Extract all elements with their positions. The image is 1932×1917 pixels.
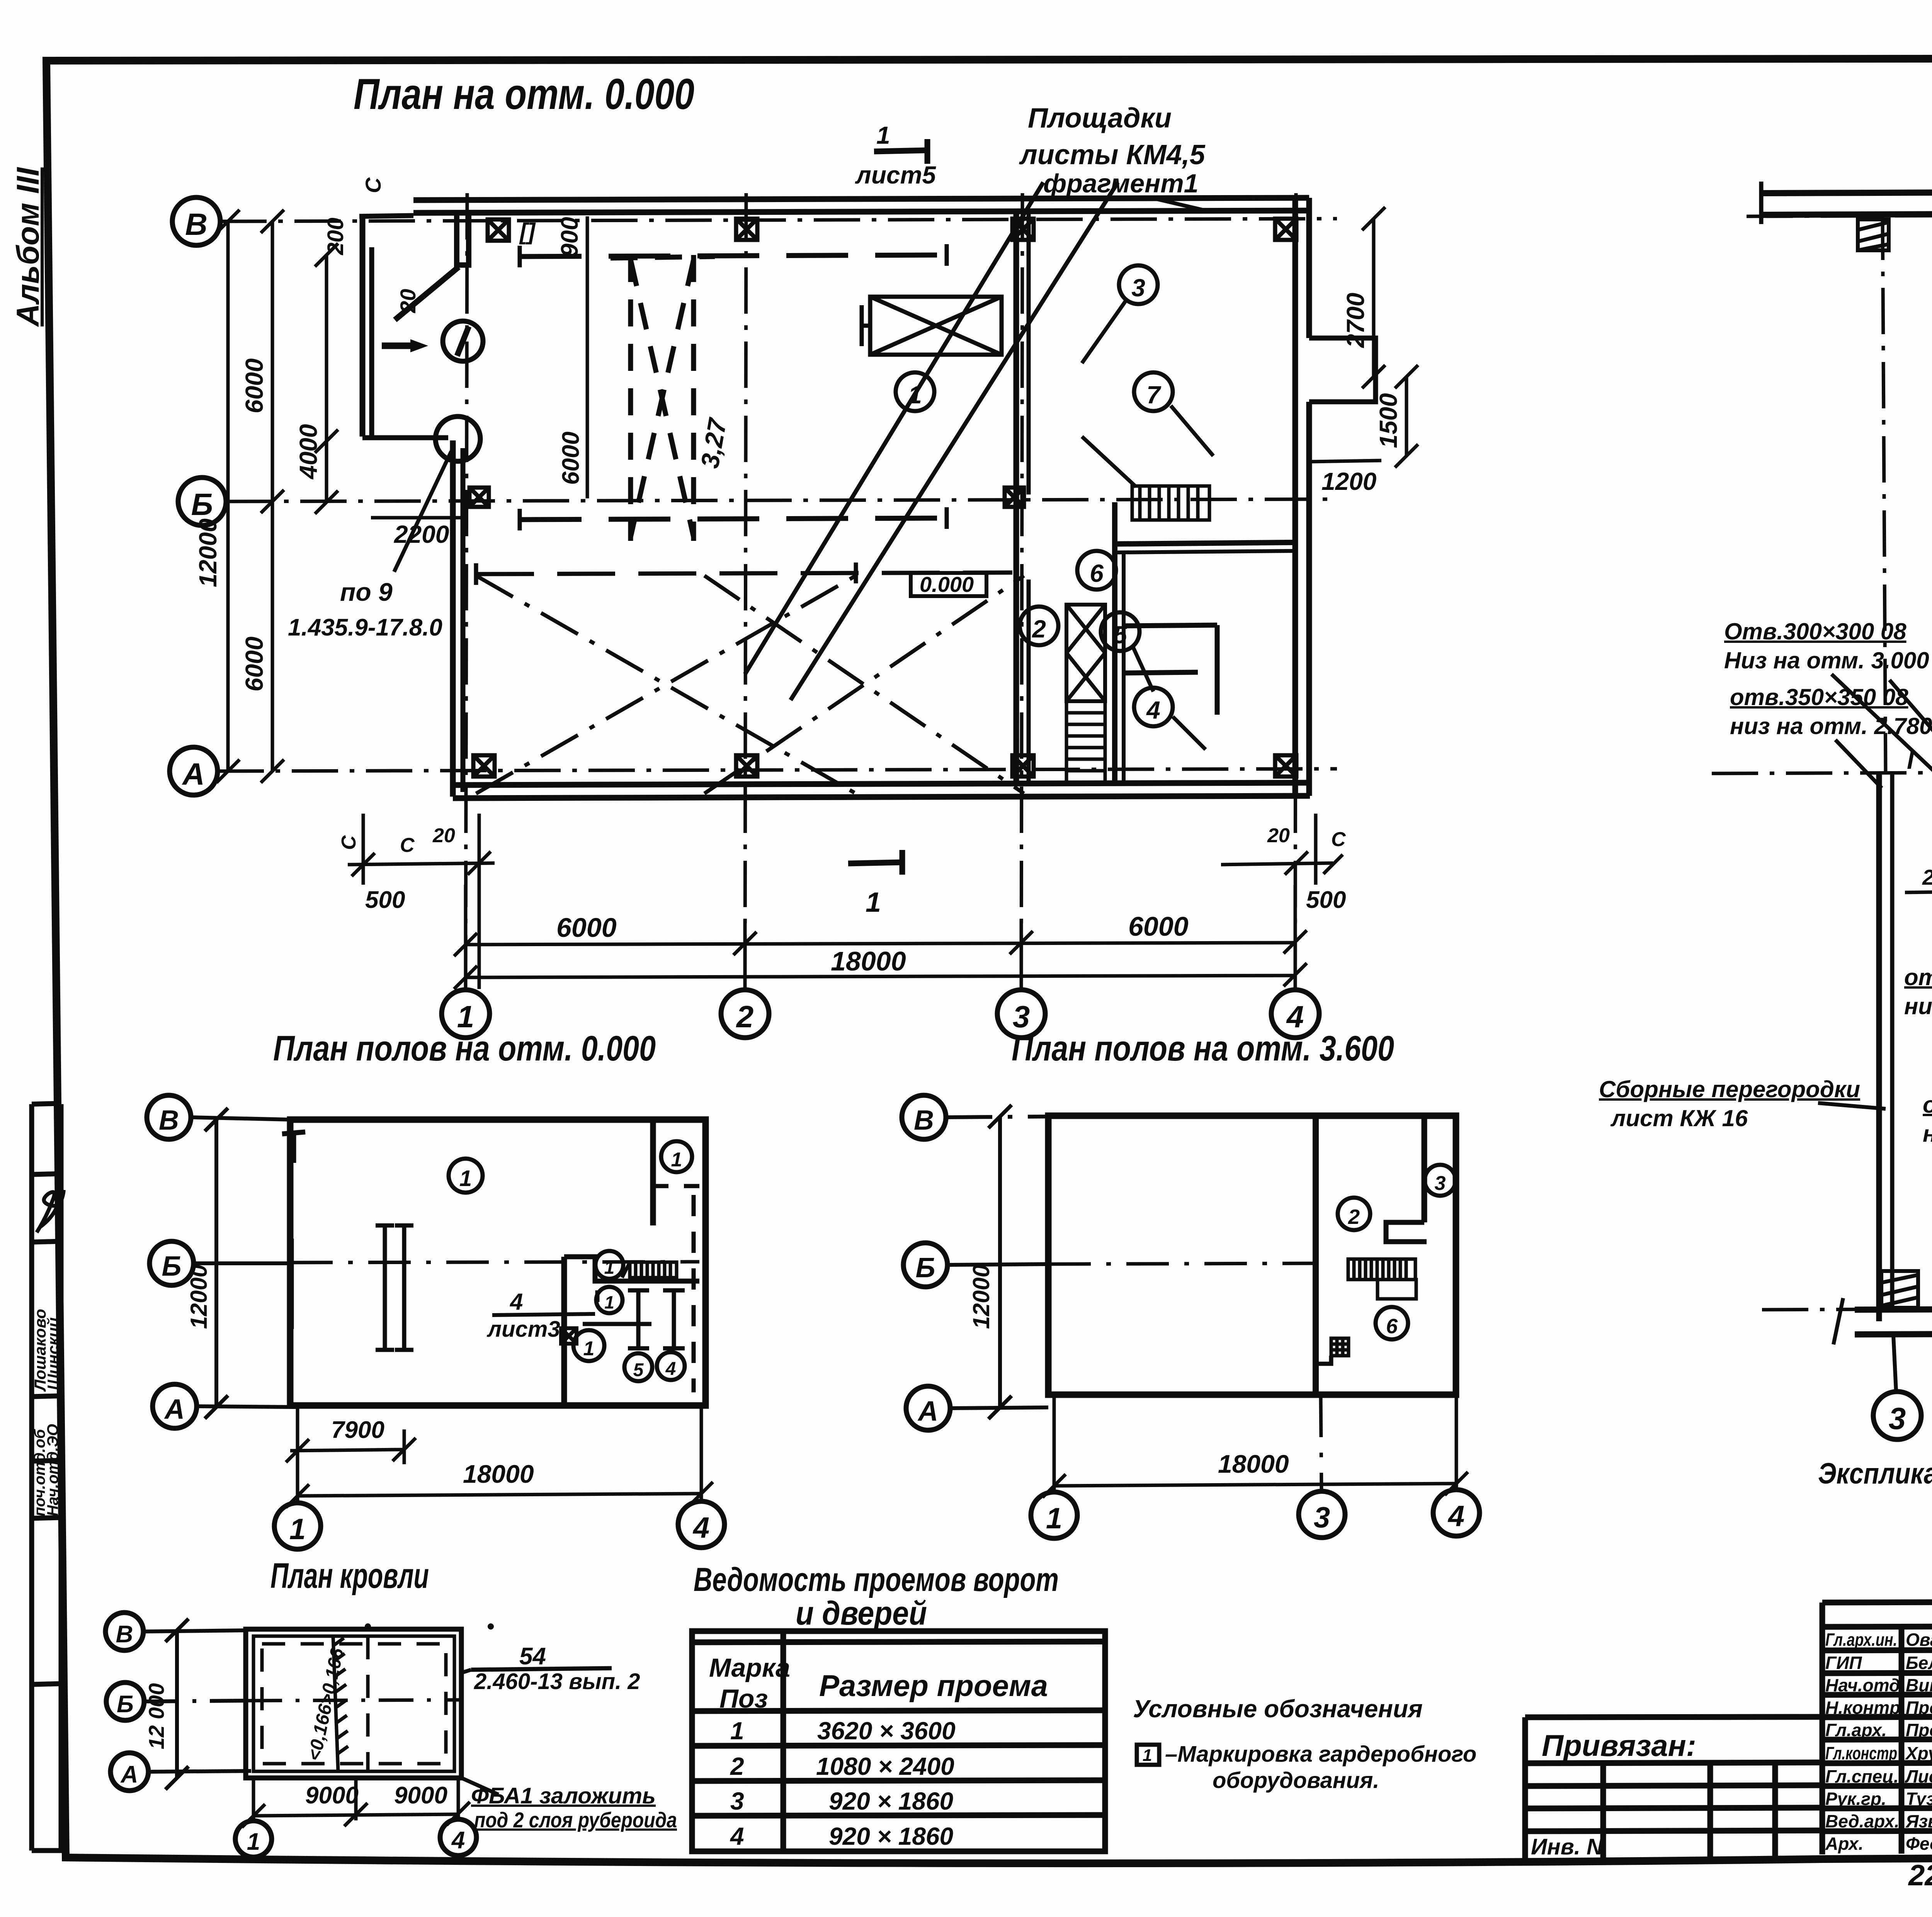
- svg-text:Отв.300×300 08: Отв.300×300 08: [1724, 619, 1906, 644]
- column Б-3: [1005, 488, 1024, 507]
- svg-text:900: 900: [556, 217, 583, 257]
- svg-text:3: 3: [1889, 1401, 1906, 1436]
- Б axis dash through: [1048, 1263, 1316, 1264]
- svg-text:План кровли: План кровли: [270, 1556, 429, 1596]
- right wall double line: [1293, 198, 1298, 796]
- svg-text:500: 500: [1306, 887, 1346, 913]
- svg-text:20: 20: [396, 289, 420, 313]
- axis line В fragment: [1747, 214, 1932, 216]
- svg-text:9000: 9000: [394, 1782, 447, 1809]
- top wall fragment: [1761, 191, 1932, 193]
- 0.000 level box: [911, 573, 986, 596]
- axis circle 1 roof: [235, 1821, 272, 1857]
- svg-text:В: В: [116, 1621, 133, 1648]
- axis circle В: [147, 1095, 191, 1139]
- svg-text:9000: 9000: [305, 1782, 359, 1809]
- svg-text:4: 4: [730, 1822, 744, 1850]
- room circle 7: [1134, 372, 1173, 411]
- svg-text:Гл.спец.: Гл.спец.: [1825, 1766, 1899, 1786]
- bottom dim row 6000-6000: [454, 885, 1307, 989]
- small hatch box bottom: [1331, 1338, 1349, 1356]
- album vertical text: [10, 167, 46, 327]
- right rooms: vertical wall: [561, 1257, 567, 1405]
- svg-text:4: 4: [510, 1289, 523, 1315]
- svg-text:С: С: [338, 835, 360, 850]
- svg-text:и дверей: и дверей: [796, 1595, 927, 1632]
- svg-text:Низ на отм. 3.000: Низ на отм. 3.000: [1724, 647, 1929, 673]
- svg-text:Б: Б: [117, 1691, 134, 1718]
- svg-text:3: 3: [1131, 274, 1145, 302]
- svg-text:Инв. N: Инв. N: [1531, 1834, 1603, 1859]
- axis circle А: [111, 1753, 148, 1791]
- svg-text:низ на отм. 3.000: низ на отм. 3.000: [1904, 993, 1932, 1019]
- svg-text:В: В: [159, 1105, 179, 1136]
- partition horizontal y1740: [1124, 672, 1198, 673]
- svg-text:[]: []: [519, 219, 536, 245]
- svg-text:Б: Б: [191, 487, 213, 522]
- section mark 1 top / лист5: [874, 139, 927, 164]
- marking box with X: [561, 1328, 577, 1344]
- axis circle 1 bottom: [274, 1503, 321, 1549]
- axis line 3 fragment: [1883, 214, 1886, 773]
- svg-text:3: 3: [1314, 1501, 1330, 1534]
- svg-text:3: 3: [1435, 1172, 1446, 1195]
- svg-text:200: 200: [323, 218, 348, 255]
- Б dash through roof: [247, 1700, 461, 1701]
- wall return at node: [362, 435, 448, 440]
- partition vertical x2885: [1112, 502, 1117, 784]
- svg-text:54: 54: [519, 1643, 546, 1670]
- top tick: [291, 1132, 296, 1163]
- plan at 0.000 (top-left): [170, 70, 1418, 1038]
- svg-text:А: А: [164, 1394, 185, 1425]
- svg-text:4: 4: [1146, 696, 1160, 724]
- svg-text:1: 1: [908, 381, 922, 409]
- svg-text:2: 2: [1348, 1205, 1360, 1229]
- svg-text:18000: 18000: [831, 946, 906, 976]
- column А-4: [1275, 755, 1296, 777]
- svg-text:лист3: лист3: [486, 1317, 560, 1342]
- svg-text:12000: 12000: [968, 1264, 994, 1329]
- left wall lower fragment: [1876, 773, 1882, 1321]
- svg-text:ФБА1 заложить: ФБА1 заложить: [471, 1783, 656, 1808]
- circle 1 at stair: [595, 1251, 623, 1279]
- axis circle Б: [178, 478, 226, 525]
- ladder lower: [1066, 701, 1105, 784]
- column А-2: [736, 755, 757, 777]
- wall stub pilaster top-left: [457, 214, 469, 265]
- svg-text:1: 1: [730, 1717, 744, 1745]
- svg-text:Альбом III: Альбом III: [10, 167, 46, 327]
- svg-text:6000: 6000: [240, 359, 268, 413]
- svg-text:Гл.арх.ин.: Гл.арх.ин.: [1825, 1630, 1897, 1650]
- top wall left canopy extension: [359, 216, 413, 216]
- svg-text:Марка: Марка: [709, 1653, 790, 1682]
- axis circle Б: [106, 1682, 144, 1720]
- svg-text:Арх.: Арх.: [1825, 1834, 1864, 1854]
- svg-text:Привязан:: Привязан:: [1542, 1728, 1696, 1762]
- interior wall axis 3: [1014, 213, 1019, 784]
- name table outer: [1820, 1603, 1825, 1854]
- svg-text:С: С: [400, 834, 415, 857]
- column lines: [1899, 1627, 1905, 1854]
- column В-3: [1012, 219, 1034, 240]
- axis circle 4 bottom: [678, 1501, 724, 1548]
- stair treads upper right: [1132, 486, 1209, 520]
- svg-text:920 × 1860: 920 × 1860: [829, 1822, 953, 1850]
- dim 12 000: [175, 1630, 179, 1778]
- axis line 1: [466, 193, 467, 990]
- upper right room: [1422, 1116, 1427, 1222]
- partition vertical x3150: [1215, 625, 1220, 715]
- node detail circle: [435, 416, 480, 461]
- svg-text:Нач.отд.ЭО: Нач.отд.ЭО: [44, 1424, 61, 1516]
- svg-text:В: В: [185, 207, 207, 241]
- svg-text:–Маркировка гардеробного: –Маркировка гардеробного: [1165, 1742, 1476, 1767]
- dashed partition right: [692, 1195, 696, 1392]
- svg-text:4: 4: [665, 1359, 676, 1379]
- svg-text:6: 6: [1386, 1315, 1398, 1338]
- svg-text:6000: 6000: [558, 432, 584, 485]
- right side dims 2700/1500/1200: [1310, 207, 1418, 467]
- title block: [1525, 1600, 1932, 1905]
- shaft X-cross lower: [1066, 605, 1105, 701]
- axis circle А: [906, 1386, 950, 1430]
- right porch bump: [1309, 338, 1376, 402]
- leader to 3: [1082, 299, 1127, 363]
- svg-text:6000: 6000: [1128, 911, 1189, 942]
- column А-1: [473, 755, 495, 777]
- svg-text:4: 4: [692, 1511, 709, 1544]
- svg-text:4: 4: [451, 1827, 465, 1854]
- svg-text:3620 × 3600: 3620 × 3600: [817, 1717, 956, 1745]
- svg-text:1: 1: [604, 1258, 615, 1278]
- svg-text:6000: 6000: [556, 913, 617, 943]
- room partition horizontal y1408: [1115, 542, 1295, 544]
- svg-text:Площадки: Площадки: [1028, 103, 1172, 134]
- left wall upper segment: [360, 216, 366, 437]
- axis line Б: [226, 499, 1337, 501]
- svg-text:1500: 1500: [1374, 393, 1402, 448]
- svg-text:Ведомость проемов ворот: Ведомость проемов ворот: [694, 1561, 1059, 1598]
- svg-text:низ на отм. 2.780: низ на отм. 2.780: [1730, 713, 1932, 739]
- dim line x705 (6000/6000): [261, 210, 284, 783]
- column В-1: [488, 219, 509, 241]
- room 2 circle: [1338, 1198, 1370, 1230]
- axis stub lines: [191, 1117, 290, 1120]
- svg-text:0.000: 0.000: [920, 572, 974, 597]
- axis stubs: [946, 1117, 1048, 1117]
- svg-text:Гл.констр: Гл.констр: [1825, 1743, 1897, 1763]
- floors plan 0.000: [147, 1029, 724, 1549]
- axis circle 4: [1271, 990, 1319, 1038]
- axis line Б fragment: [1712, 771, 1932, 773]
- door schedule table: [692, 1561, 1476, 1851]
- gate open leaf diagonal: [395, 267, 459, 320]
- bottom wall fragment: [1855, 1307, 1932, 1310]
- axis line 4: [1295, 193, 1296, 990]
- svg-text:А: А: [182, 757, 205, 791]
- left wall lower segment: [450, 440, 456, 797]
- circles 5 and 4: [624, 1353, 652, 1381]
- svg-text:7900: 7900: [331, 1417, 384, 1443]
- svg-text:Белоус: Белоус: [1906, 1653, 1932, 1673]
- 900 vertical dim shaft: [586, 216, 589, 498]
- dim 12000: [998, 1117, 1002, 1407]
- svg-text:4: 4: [1447, 1500, 1464, 1533]
- stamp column boxes: [32, 1103, 66, 1851]
- svg-text:Хрупало: Хрупало: [1905, 1743, 1932, 1763]
- stair block: [1348, 1259, 1416, 1299]
- column А-3: [1012, 755, 1034, 777]
- svg-text:5: 5: [1113, 621, 1128, 649]
- svg-text:18000: 18000: [463, 1460, 534, 1488]
- svg-text:Тузанов: Тузанов: [1906, 1789, 1932, 1809]
- svg-text:отв. 300×300 08: отв. 300×300 08: [1904, 964, 1932, 990]
- svg-text:3: 3: [730, 1787, 744, 1815]
- crane dashed line lower: [520, 518, 947, 520]
- crane dashed line upper: [520, 255, 947, 257]
- room circle 2: [1020, 607, 1058, 645]
- room circle 5: [1101, 612, 1139, 651]
- left stamp column: [31, 1103, 66, 1851]
- bottom dim small 500 right: [1221, 814, 1343, 885]
- mid tick: [290, 1239, 294, 1329]
- svg-text:Прошляков: Прошляков: [1906, 1720, 1932, 1740]
- row lines name table: [1822, 1626, 1932, 1627]
- svg-text:Б: Б: [162, 1251, 182, 1282]
- axis line А fragment: [1762, 1307, 1932, 1310]
- svg-text:низ на отм. 2.750: низ на отм. 2.750: [1923, 1121, 1932, 1147]
- svg-text:под 2 слоя рубероида: под 2 слоя рубероида: [474, 1808, 677, 1832]
- left section box: [1522, 1717, 1528, 1859]
- svg-text:5: 5: [633, 1360, 644, 1380]
- axis circle Б: [903, 1243, 947, 1287]
- svg-text:С: С: [1331, 828, 1346, 851]
- room circle 3: [1119, 265, 1158, 304]
- axis circle 4 roof: [440, 1819, 476, 1856]
- svg-text:Лисичкин: Лисичкин: [1905, 1766, 1932, 1786]
- axis stubs: [143, 1630, 246, 1631]
- room circle 1: [896, 372, 934, 411]
- svg-text:920 × 1860: 920 × 1860: [829, 1787, 953, 1815]
- room circle 4: [1134, 688, 1173, 726]
- dashed middle vertical: [366, 1636, 370, 1771]
- building outline: [290, 1120, 706, 1405]
- fragment 1 (right): [1599, 79, 1932, 1490]
- axis circle 1: [1031, 1492, 1077, 1538]
- leader diagonal 1: [745, 182, 1043, 674]
- leaders left: [1832, 674, 1932, 846]
- svg-text:1: 1: [1046, 1502, 1062, 1535]
- svg-text:2200: 2200: [394, 520, 449, 548]
- svg-text:7: 7: [1146, 381, 1162, 409]
- svg-text:Язычьян: Язычьян: [1905, 1811, 1932, 1831]
- platform crossed rect top: [862, 297, 1002, 355]
- partition horizontal y1620: [1124, 625, 1217, 626]
- svg-text:Сборные перегородки: Сборные перегородки: [1599, 1076, 1860, 1102]
- svg-text:1: 1: [459, 1166, 472, 1191]
- svg-text:План полов на отм. 0.000: План полов на отм. 0.000: [273, 1029, 656, 1068]
- svg-text:Б: Б: [916, 1253, 935, 1283]
- dash-dot X brace left bay: [476, 576, 1024, 794]
- axis circle 3: [997, 990, 1045, 1038]
- table grid: [692, 1631, 1105, 1851]
- svg-text:лист КЖ 16: лист КЖ 16: [1610, 1105, 1748, 1131]
- svg-text:2: 2: [736, 999, 754, 1034]
- svg-text:оборудования.: оборудования.: [1213, 1768, 1379, 1793]
- room 1 big circle: [449, 1159, 483, 1193]
- svg-text:12000: 12000: [194, 518, 222, 587]
- stair treads: [622, 1262, 677, 1278]
- svg-text:22529-03 5: 22529-03 5: [1908, 1859, 1932, 1892]
- bottom wall double line: [453, 783, 1310, 785]
- svg-text:1: 1: [866, 887, 881, 918]
- svg-text:листы КМ4,5: листы КМ4,5: [1019, 139, 1206, 170]
- lower dashed tie line: [476, 573, 1012, 574]
- axis circle 1: [442, 990, 490, 1038]
- svg-text:1: 1: [1143, 1746, 1152, 1765]
- svg-text:Шинский: Шинский: [44, 1317, 62, 1390]
- floors plan 3.600: [902, 1029, 1480, 1538]
- svg-text:А: А: [917, 1396, 938, 1427]
- section mark 1 bottom: [848, 850, 902, 875]
- svg-text:В: В: [914, 1105, 934, 1136]
- svg-text:План полов на отм. 3.600: План полов на отм. 3.600: [1012, 1029, 1394, 1068]
- svg-text:Прошляков: Прошляков: [1906, 1698, 1932, 1718]
- svg-text:6000: 6000: [240, 637, 268, 692]
- svg-text:Рук.гр.: Рук.гр.: [1825, 1789, 1886, 1809]
- svg-text:Ованесян: Ованесян: [1906, 1630, 1932, 1650]
- svg-text:20: 20: [432, 824, 455, 847]
- gate leaf circle mark: [443, 321, 483, 361]
- room 1 circle upper right: [661, 1141, 692, 1172]
- ticks in rooms 5/4: [583, 1290, 685, 1348]
- svg-text:Н.контр.: Н.контр.: [1825, 1698, 1905, 1718]
- svg-text:2700: 2700: [1342, 293, 1369, 348]
- top dots: [365, 1623, 371, 1630]
- svg-text:Поз: Поз: [719, 1684, 768, 1713]
- svg-text:Винклер: Винклер: [1906, 1675, 1932, 1695]
- dashed shaft rect: [611, 255, 715, 541]
- svg-text:1: 1: [289, 1513, 306, 1546]
- left small grid: [1525, 1762, 1822, 1763]
- axis line 2: [745, 193, 746, 990]
- svg-text:250: 250: [1922, 865, 1932, 889]
- column В-2: [736, 219, 757, 240]
- entry arrow: [382, 343, 410, 349]
- axis line А: [218, 769, 1337, 771]
- svg-text:План на отм. 0.000: План на отм. 0.000: [354, 70, 694, 118]
- interior main wall: [1313, 1116, 1319, 1395]
- room 1 circle lower: [573, 1330, 604, 1361]
- dim 12000 left: [214, 1120, 218, 1407]
- svg-text:Условные обозначения: Условные обозначения: [1133, 1695, 1423, 1723]
- svg-text:1.435.9-17.8.0: 1.435.9-17.8.0: [288, 614, 442, 641]
- dashed inner: [262, 1644, 446, 1764]
- dim line x845 (4000/200): [315, 243, 338, 514]
- bottom dim small 500 left: [348, 814, 495, 989]
- svg-text:отв.350×350 08: отв.350×350 08: [1923, 1092, 1932, 1118]
- axis circle 4: [1433, 1490, 1480, 1536]
- svg-text:1200: 1200: [1321, 467, 1376, 495]
- roof plan: [105, 1556, 677, 1857]
- svg-text:Нач.отд.: Нач.отд.: [1825, 1675, 1905, 1695]
- svg-text:20: 20: [1267, 824, 1290, 847]
- step notch at Б: [564, 1257, 699, 1281]
- axis circle В: [105, 1613, 143, 1650]
- svg-text:Федулина: Федулина: [1906, 1834, 1932, 1854]
- svg-text:1: 1: [247, 1829, 260, 1855]
- column Б-1: [469, 488, 489, 507]
- axis circle Б: [150, 1241, 194, 1285]
- svg-text:отв.350×350 08: отв.350×350 08: [1730, 684, 1908, 710]
- column В-3 hatched: [1858, 219, 1889, 250]
- svg-text:1: 1: [583, 1337, 595, 1360]
- signature scribble in stamp: [37, 1190, 64, 1232]
- axis 3 dash to circle: [1321, 1395, 1321, 1490]
- Б axis dash through: [290, 1262, 699, 1263]
- room 5 circle: [1376, 1307, 1408, 1339]
- axis circle А: [153, 1384, 197, 1428]
- axis circle 3: [1299, 1491, 1345, 1538]
- axis line В: [220, 219, 1337, 221]
- column В-4: [1275, 219, 1296, 240]
- svg-text:1: 1: [604, 1292, 614, 1312]
- leader lines small rooms: [1082, 406, 1213, 749]
- svg-text:ГИП: ГИП: [1825, 1653, 1862, 1673]
- room 3 circle: [1425, 1165, 1456, 1196]
- axis line 3: [1021, 193, 1022, 990]
- column А-3 hatched: [1881, 1271, 1918, 1308]
- axis circle 2: [721, 990, 769, 1038]
- svg-text:Размер проема: Размер проема: [819, 1669, 1048, 1703]
- svg-text:6: 6: [1090, 559, 1104, 587]
- svg-text:12 000: 12 000: [144, 1683, 168, 1749]
- leader diagonals center: [1889, 680, 1932, 850]
- svg-text:4000: 4000: [294, 424, 322, 480]
- svg-text:2.460-13 вып. 2: 2.460-13 вып. 2: [474, 1669, 640, 1694]
- svg-text:1: 1: [671, 1149, 682, 1171]
- roof outline double: [246, 1629, 461, 1778]
- axis circle А: [170, 747, 218, 795]
- svg-text:Вед.арх.: Вед.арх.: [1825, 1811, 1899, 1831]
- axis circle 3 fragment: [1873, 1392, 1921, 1439]
- hatched valley strip: [333, 1636, 348, 1771]
- svg-text:500: 500: [365, 887, 405, 913]
- svg-text:Экспликацию полов и помещений: Экспликацию полов и помещений смотреть н…: [1818, 1457, 1932, 1490]
- svg-text:12000: 12000: [186, 1264, 212, 1329]
- monorail beams center: [376, 1225, 413, 1350]
- building outline: [1048, 1116, 1456, 1395]
- leader diagonal 2: [791, 182, 1118, 700]
- svg-text:А: А: [120, 1761, 138, 1788]
- svg-text:2: 2: [1032, 615, 1046, 643]
- svg-text:фрагмент1: фрагмент1: [1043, 169, 1199, 198]
- svg-text:2: 2: [730, 1752, 744, 1780]
- upper right room wall: [650, 1120, 656, 1225]
- svg-text:С: С: [361, 177, 385, 193]
- svg-text:1: 1: [876, 121, 890, 149]
- svg-text:18000: 18000: [1218, 1450, 1289, 1478]
- svg-text:Гл.арх.: Гл.арх.: [1825, 1720, 1887, 1740]
- dim 2200: [371, 516, 464, 520]
- svg-text:1080 × 2400: 1080 × 2400: [816, 1752, 954, 1780]
- top wall double line: [413, 198, 1309, 200]
- main outline lines: [1525, 1600, 1932, 1859]
- axis circle В: [172, 197, 220, 245]
- svg-text:по 9: по 9: [340, 578, 393, 606]
